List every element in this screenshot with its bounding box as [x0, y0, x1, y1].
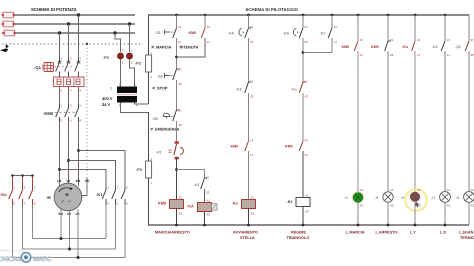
contact KA 67-68 timed NO — [283, 25, 308, 44]
node L3 tap — [58, 31, 61, 34]
svg-text:V1: V1 — [66, 179, 70, 183]
svg-text:A2: A2 — [179, 212, 183, 216]
svg-text:13: 13 — [417, 38, 421, 42]
svg-text:X2: X2 — [447, 203, 451, 207]
PE dashed rail — [0, 44, 143, 52]
node bottom H1 — [357, 224, 360, 227]
svg-text:-H: -H — [344, 196, 348, 200]
wire rail to KA 67-68 — [302, 15, 304, 28]
svg-text:33: 33 — [305, 139, 309, 143]
wire left rail upper — [148, 15, 150, 104]
wire coil Ka to rail — [248, 209, 250, 226]
fuse on L3 — [3, 30, 16, 36]
svg-text:KM0: KM0 — [371, 45, 379, 49]
wire KM pole1 to motor U1 — [59, 122, 61, 186]
wire L3 tap to fuse F2a — [115, 33, 121, 52]
svg-text:21: 21 — [179, 68, 183, 72]
wire K1 seal to delta branch — [303, 38, 332, 53]
svg-text:-Q1: -Q1 — [455, 45, 461, 49]
contact KM0 13-14 star — [231, 139, 254, 158]
svg-text:P_MARCIA: P_MARCIA — [152, 46, 172, 50]
contactor Ka pole 2 — [19, 176, 26, 206]
svg-text:13: 13 — [207, 25, 211, 29]
wire rail to KM0 contact — [357, 15, 359, 41]
svg-text:X1: X1 — [471, 188, 474, 192]
node rail tap main — [175, 14, 178, 17]
svg-text:3: 3 — [62, 200, 64, 204]
svg-text:-H: -H — [375, 196, 379, 200]
svg-text:56: 56 — [250, 40, 254, 44]
wire Q1 to KM pole3 — [78, 87, 80, 105]
node bottom Ka — [247, 224, 250, 227]
wire to KM0 13-14 — [248, 93, 250, 141]
node W2 join — [60, 237, 63, 240]
wire lamp H5 to rail — [468, 202, 470, 225]
wire Ka pole3 down — [32, 205, 34, 239]
wire L1 to Q1 — [78, 15, 80, 58]
svg-text:14: 14 — [250, 153, 254, 157]
svg-text:KM0: KM0 — [158, 202, 166, 206]
svg-text:U1: U1 — [57, 179, 61, 183]
svg-text:REGIME: REGIME — [291, 231, 306, 235]
breaker Q1 mechanical link — [50, 66, 74, 68]
svg-text:-Q1: -Q1 — [34, 65, 42, 70]
svg-text:L.ARRESTO: L.ARRESTO — [376, 231, 398, 235]
wire Q1 to KM pole2 — [68, 87, 70, 105]
wire lamp H1 to rail — [357, 202, 359, 225]
svg-text:13: 13 — [360, 38, 364, 42]
wire KM pole3 to motor W1 — [78, 122, 80, 186]
pushbutton S1 P_MARCIA — [152, 25, 182, 50]
pushbutton S2 P_STOP — [153, 68, 183, 91]
wire rail end to Q1 contact — [468, 15, 470, 41]
svg-text:X1: X1 — [417, 188, 421, 192]
wire motor W2 down — [60, 209, 62, 239]
svg-text:14: 14 — [178, 40, 182, 44]
svg-text:-K1: -K1 — [194, 183, 200, 187]
node rail tap H1 — [357, 14, 360, 17]
lamp H2 L.ARRESTO — [375, 188, 395, 207]
coil K1 — [287, 194, 311, 214]
node bottom H3 — [414, 224, 417, 227]
svg-text:-H: -H — [456, 196, 460, 200]
node K1 seal join — [302, 51, 305, 54]
wire to coil K1 — [302, 151, 304, 198]
svg-text:-Ka: -Ka — [0, 192, 7, 197]
svg-text:-F4: -F4 — [136, 168, 143, 172]
svg-text:X2: X2 — [360, 203, 364, 207]
svg-text:-K1: -K1 — [96, 192, 103, 197]
node L2 transformer tap — [128, 22, 131, 25]
svg-text:-H: -H — [401, 196, 405, 200]
svg-text:-S2: -S2 — [157, 75, 163, 79]
wire rail to S1 — [176, 15, 178, 28]
wire rail to KA 55-56 — [248, 15, 250, 28]
wire L1 — [2, 14, 135, 16]
breaker Q1 pole 2 — [65, 57, 72, 78]
highlight ring around L.Y — [405, 189, 427, 211]
node L1 tap — [77, 13, 80, 16]
transformer T1 — [102, 83, 138, 108]
wire L2 to Q1 — [68, 24, 70, 58]
node rail tap H4 — [444, 14, 447, 17]
wire contact to lamp H4 — [444, 51, 446, 192]
wire rail to Ka contact — [414, 15, 416, 41]
svg-text:-F2: -F2 — [156, 151, 161, 155]
svg-text:AVVIAMENTO: AVVIAMENTO — [233, 231, 258, 235]
svg-text:X2: X2 — [471, 203, 474, 207]
svg-text:22: 22 — [250, 95, 254, 99]
contactor KM0 pole 1 — [56, 104, 63, 123]
svg-text:L.D: L.D — [440, 231, 446, 235]
wire L3 to Q1 — [59, 33, 61, 58]
svg-text:13: 13 — [178, 25, 182, 29]
contact KM0 21-22 lamp2 — [371, 38, 394, 57]
wire transformer secondary left to F4 rail — [121, 103, 150, 113]
coil KA timer — [187, 199, 217, 217]
svg-text:∼: ∼ — [68, 198, 72, 203]
svg-text:A2: A2 — [251, 212, 255, 216]
wire S0 to F2 contact — [176, 121, 178, 144]
svg-text:62: 62 — [206, 191, 210, 195]
node bottom KA — [203, 224, 206, 227]
wire seal to node A — [177, 38, 206, 57]
wire KM pole2 to motor V1 — [68, 122, 70, 184]
wire delta link U2 — [23, 248, 116, 250]
node L3 transformer tap — [113, 31, 116, 34]
wire F2a to transformer — [120, 59, 122, 87]
fuse F2 pole a — [118, 49, 124, 65]
node tap to K1 line1 — [58, 168, 61, 171]
wire KA 67-68 down — [302, 38, 304, 82]
wire Ka pole1 down — [12, 205, 14, 258]
wire contact to lamp H2 — [387, 51, 389, 192]
svg-text:-KM0: -KM0 — [43, 111, 54, 116]
wire delta link W2 — [33, 238, 107, 240]
wire rail to K1 contact — [444, 15, 446, 41]
contact KA 55-56 timed NC — [228, 25, 254, 44]
svg-text:24 V: 24 V — [102, 102, 111, 107]
cursor mark — [415, 202, 420, 208]
contactor KM0 main poles — [43, 111, 54, 116]
wire lamp H4 to rail — [444, 202, 446, 225]
svg-text:-KA: -KA — [228, 32, 235, 36]
svg-text:A1: A1 — [251, 196, 255, 200]
svg-text:W1: W1 — [76, 179, 81, 183]
svg-text:L.MARCIA: L.MARCIA — [346, 231, 365, 235]
svg-text:X1: X1 — [390, 188, 394, 192]
node U2 join — [68, 248, 71, 251]
contact KM0 13-14 seal — [180, 25, 211, 50]
svg-text:MARC: MARC — [33, 256, 52, 263]
svg-text:KM0: KM0 — [189, 31, 197, 35]
svg-text:-T: -T — [109, 87, 112, 91]
breaker Q1 pole 3 — [75, 57, 82, 78]
contact K1 13-14 seal — [320, 25, 338, 44]
node rail tap H3 — [414, 14, 417, 17]
wire lamp H3 to rail — [414, 202, 416, 225]
contact Ka 13-14 lamp3 — [402, 38, 421, 57]
contactor KM0 link — [55, 112, 75, 114]
node bottom K1 — [302, 224, 305, 227]
svg-text:13: 13 — [250, 139, 254, 143]
svg-text:-S1: -S1 — [155, 31, 161, 35]
breaker Q1 thermal elements — [54, 77, 85, 93]
svg-text:13: 13 — [447, 38, 451, 42]
contactor K1 pole 3 — [121, 186, 128, 206]
wire L3 — [2, 32, 135, 34]
svg-text:41: 41 — [305, 80, 309, 84]
svg-text:TRIANGOLO: TRIANGOLO — [287, 236, 310, 240]
svg-text:-Ka: -Ka — [402, 45, 409, 49]
contactor Ka pole 3 — [29, 176, 36, 206]
node V2 join — [77, 256, 80, 259]
wire Ka pole2 down — [22, 205, 24, 249]
wire K1 pole1 down — [105, 205, 107, 239]
svg-text:P_EMERGENZA: P_EMERGENZA — [151, 128, 180, 132]
node L2 tap — [67, 22, 70, 25]
wire coil KA to rail — [204, 212, 206, 226]
wire K1 nc to coil KA — [204, 189, 206, 203]
svg-text:98: 98 — [471, 53, 474, 57]
node tap to K1 line2 — [67, 159, 70, 162]
coil Ka — [232, 196, 256, 216]
svg-text:68: 68 — [305, 40, 309, 44]
svg-text:22: 22 — [390, 53, 394, 57]
svg-text:KM0: KM0 — [342, 45, 350, 49]
svg-text:34: 34 — [305, 153, 309, 157]
contact F2 thermal 95-96 — [156, 141, 183, 159]
lamp H1 L.MARCIA green — [344, 188, 364, 207]
coil KM0 — [158, 196, 184, 216]
contactor KM0 pole 3 — [75, 104, 82, 123]
breaker Q1 pole 1 — [56, 57, 63, 78]
node rail tap seal — [204, 14, 207, 17]
svg-text:-F2: -F2 — [103, 56, 109, 60]
contact Ka 41-42 — [291, 80, 308, 99]
node bottom H2 — [387, 224, 390, 227]
wire motor U2 down — [69, 211, 71, 249]
PE dashed drop to motor — [82, 43, 88, 196]
svg-text:14: 14 — [207, 40, 211, 44]
wire left rail lower — [148, 113, 150, 226]
svg-text:14: 14 — [360, 53, 364, 57]
wire tap to K1 pole2 — [69, 161, 116, 188]
lamp H4 L.D — [431, 188, 451, 207]
wire motor V2 down — [77, 209, 79, 258]
wire to K1 21-22 — [248, 38, 250, 82]
contactor Ka pole 1 — [9, 176, 16, 206]
node rail tap K1 seal — [331, 14, 334, 17]
svg-text:21: 21 — [250, 80, 254, 84]
svg-text:KM0: KM0 — [231, 145, 239, 149]
contact K1 13-14 lamp4 — [432, 38, 450, 57]
wire delta link V2 — [13, 257, 126, 259]
pushbutton S0 P_EMERGENZA — [151, 109, 183, 132]
wire contact to lamp H5 — [468, 51, 470, 192]
svg-text:-K1: -K1 — [432, 45, 438, 49]
node A seal join — [175, 56, 178, 59]
svg-text:X2: X2 — [390, 203, 394, 207]
svg-text:CANALE UFFICIALE: CANALE UFFICIALE — [0, 250, 25, 253]
svg-text:A1: A1 — [179, 196, 183, 200]
svg-text:-K1: -K1 — [236, 88, 242, 92]
contact KM0 33-34 — [285, 139, 308, 158]
svg-text:A2: A2 — [207, 213, 211, 217]
wire S2 to S0 — [176, 80, 178, 110]
wire bottom rail — [148, 224, 469, 226]
svg-text:RITENUTA: RITENUTA — [180, 46, 199, 50]
wire contact to lamp H1 — [357, 51, 359, 192]
svg-text:X1: X1 — [447, 188, 451, 192]
svg-text:-M: -M — [46, 195, 51, 200]
svg-text:14: 14 — [417, 53, 421, 57]
svg-text:A1: A1 — [207, 199, 211, 203]
wire L2 — [2, 23, 135, 25]
fuse F1 (L1) — [2, 12, 15, 18]
svg-text:-K1: -K1 — [287, 200, 293, 204]
svg-text:67: 67 — [305, 25, 309, 29]
wire rail to KM0 21-22 — [387, 15, 389, 41]
node rail tap H2 — [387, 14, 390, 17]
svg-text:P_STOP: P_STOP — [153, 87, 168, 91]
node bottom main — [175, 224, 178, 227]
lamp H5 L.SGANCIO — [456, 188, 474, 207]
wire contact to lamp H3 — [414, 51, 416, 192]
wire F2 to node B — [176, 157, 178, 200]
wire to coil Ka — [248, 151, 250, 200]
contact KM0 lamp1 — [342, 38, 364, 57]
contactor K1 pole 2 — [112, 186, 119, 206]
svg-text:X1: X1 — [360, 188, 364, 192]
wire to KM0 33-34 — [302, 93, 304, 141]
node bottom H4 — [444, 224, 447, 227]
svg-text:L.SGAN: L.SGAN — [459, 231, 474, 235]
node rail tap triangolo — [302, 14, 305, 17]
wire lamp H2 to rail — [387, 202, 389, 225]
svg-text:-S0: -S0 — [152, 117, 158, 121]
svg-text:-Ka: -Ka — [291, 88, 297, 92]
fuse on L2 — [2, 21, 15, 27]
svg-text:SCHEMA DI PILOTAGGIO: SCHEMA DI PILOTAGGIO — [246, 7, 299, 12]
svg-text:-F3: -F3 — [135, 62, 141, 66]
wire L2 tap to fuse F2b — [129, 24, 131, 52]
svg-text:14: 14 — [447, 53, 451, 57]
wire coil KM0 to rail — [176, 209, 178, 226]
svg-text:-Ka: -Ka — [232, 202, 239, 206]
motor M — [46, 179, 89, 216]
svg-text:A1: A1 — [305, 194, 309, 198]
svg-text:MARCIA/ARRESTO: MARCIA/ARRESTO — [155, 231, 190, 235]
fuse F4 — [136, 157, 153, 185]
contact K1 21-22 — [236, 80, 254, 99]
wire node B to K1 nc — [177, 170, 205, 179]
svg-text:A2: A2 — [305, 210, 309, 214]
contact Q1 97-98 lamp5 — [455, 38, 474, 57]
svg-text:SCHEMA DI POTENZA: SCHEMA DI POTENZA — [31, 7, 77, 12]
breaker Q1 — [34, 63, 54, 72]
wire top rail — [148, 14, 469, 16]
svg-text:-H: -H — [431, 196, 435, 200]
svg-text:61: 61 — [206, 176, 210, 180]
svg-text:-K1: -K1 — [320, 32, 326, 36]
node rail tap stella — [247, 14, 250, 17]
wire coil K1 to rail — [302, 207, 304, 226]
wire K1 pole3 down — [124, 205, 126, 258]
svg-text:400 V: 400 V — [102, 96, 113, 101]
fuse F3 — [135, 51, 153, 79]
wire tap to K1 pole1 — [60, 170, 107, 188]
contactor K1 pole 1 — [102, 186, 109, 206]
svg-text:21: 21 — [179, 109, 183, 113]
svg-text:L.Y: L.Y — [410, 231, 416, 235]
svg-text:22: 22 — [179, 123, 183, 127]
wire transformer secondary right to F3 rail — [135, 103, 149, 105]
contactor KM0 pole 2 — [65, 104, 72, 123]
wire rail to K1 13-14 — [331, 15, 333, 28]
svg-text:13: 13 — [334, 25, 338, 29]
svg-text:-KA: -KA — [187, 205, 194, 209]
wire rail to KM0 seal contact — [204, 15, 206, 28]
wire S1 to node A — [176, 38, 178, 69]
svg-text:PE: PE — [85, 179, 89, 183]
svg-text:22: 22 — [179, 82, 183, 86]
svg-text:42: 42 — [305, 95, 309, 99]
wire K1 pole2 down — [115, 205, 117, 249]
lamp H3 L.Y brown — [401, 188, 422, 207]
watermark logo — [0, 250, 52, 264]
wire F2b to transformer — [130, 59, 135, 87]
contactor Ka star bridge — [0, 174, 34, 197]
fuse F2 pole b — [127, 49, 133, 65]
svg-text:14: 14 — [334, 40, 338, 44]
svg-text:97: 97 — [471, 38, 474, 42]
node tap to K1 line3 — [77, 149, 80, 152]
wire Q1 to KM pole1 — [59, 87, 61, 105]
contact K1 61-62 — [194, 176, 210, 195]
wire tap to K1 pole3 — [79, 151, 126, 188]
svg-text:21: 21 — [390, 38, 394, 42]
svg-text:TERMIC: TERMIC — [460, 236, 474, 240]
svg-text:KM0: KM0 — [285, 145, 293, 149]
node B KA tap — [175, 168, 178, 171]
svg-text:-KA: -KA — [283, 32, 290, 36]
svg-text:STELLA: STELLA — [240, 236, 255, 240]
